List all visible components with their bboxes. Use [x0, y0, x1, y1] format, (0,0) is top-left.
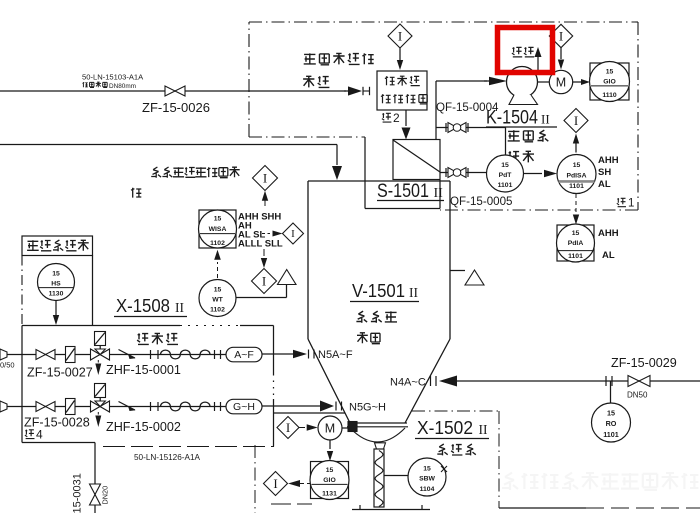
instrument 15-PdISA-1101	[557, 155, 596, 194]
svg-text:1: 1	[628, 198, 634, 210]
svg-text:15: 15	[573, 162, 581, 169]
svg-text:I: I	[286, 420, 290, 435]
svg-text:ZF-15-0028: ZF-15-0028	[24, 416, 90, 430]
svg-text:1101: 1101	[569, 183, 584, 190]
label QF-15-0004	[436, 101, 499, 114]
svg-text:M: M	[556, 76, 566, 90]
alarm labels AHH / AL	[598, 228, 619, 261]
svg-text:ALLL SLL: ALLL SLL	[238, 239, 283, 250]
oval tag G~H	[226, 399, 262, 414]
box: filter blowback system (过滤器反吹系统)	[377, 71, 427, 110]
svg-text:II: II	[541, 112, 550, 127]
flange	[151, 350, 159, 359]
svg-text:I: I	[559, 28, 563, 43]
instrument 15-SBW-1104	[408, 458, 447, 496]
diamond I (interlock, top)	[253, 166, 278, 207]
svg-text:15: 15	[52, 271, 60, 278]
svg-text:DN20: DN20	[101, 486, 110, 505]
equipment label S-1501 II	[377, 181, 444, 202]
label QF-15-0005	[450, 195, 513, 208]
svg-text:N4A~C: N4A~C	[390, 377, 426, 389]
motor M of fan	[538, 70, 573, 93]
3-way valve ZHF-15-0001 with actuator	[91, 332, 110, 376]
note 注4	[25, 428, 43, 442]
screw flight	[375, 451, 383, 507]
svg-text:15: 15	[572, 230, 580, 237]
svg-text:ZF-15-0026: ZF-15-0026	[142, 100, 210, 115]
oval tag A~F	[226, 347, 262, 362]
wire oval to nozzle N5A~F	[262, 349, 353, 361]
red highlight box (annotation)	[498, 28, 553, 73]
instrument 15-WISA-1102 (square+circle)	[199, 210, 237, 248]
air cannon line ZF-15-0027	[0, 354, 226, 356]
wire: interlock line to vessel top	[0, 145, 342, 181]
dashed arrow WT up to WISA	[214, 250, 221, 278]
QF-15-0005 branch: flanges + globe valve	[440, 168, 487, 178]
svg-text:I: I	[398, 28, 402, 43]
diamond I above PdISA	[564, 109, 588, 153]
svg-text:S-1501: S-1501	[377, 181, 429, 202]
wire: air cannon header	[22, 326, 274, 447]
svg-text:15: 15	[214, 216, 222, 223]
vessel V-1501 outline	[308, 181, 450, 423]
instrument 15-PdT-1101	[487, 155, 524, 192]
wire below G~H to funnel	[274, 412, 346, 414]
bottom header pipe	[22, 443, 95, 513]
svg-text:V-1501: V-1501	[352, 280, 405, 301]
X-1502 dash-dot boundary	[255, 411, 700, 513]
svg-text:AL: AL	[602, 250, 615, 261]
svg-text:1104: 1104	[420, 486, 435, 493]
arrow motor to GIO-1110	[573, 79, 590, 85]
arrow down to diamond I (third)	[252, 249, 277, 294]
svg-text:1101: 1101	[568, 253, 583, 260]
svg-text:II: II	[434, 186, 444, 201]
wire oval to nozzle N5G~H	[262, 401, 386, 414]
arrow PdT to PdISA	[524, 170, 558, 177]
vessel bottom bowl + flange	[347, 423, 408, 442]
svg-text:15: 15	[214, 287, 222, 294]
QF-15-0004 branch: flanges + globe valve	[436, 123, 506, 156]
svg-text:2: 2	[393, 111, 400, 125]
svg-text:1131: 1131	[322, 490, 337, 497]
wire: filter to fan suction	[436, 81, 487, 140]
svg-text:X-1502: X-1502	[417, 417, 473, 438]
svg-text:X-1508: X-1508	[116, 295, 170, 316]
diamond I (right of AL SL) + dashed arrow	[262, 223, 304, 244]
inline device	[66, 399, 76, 415]
svg-text:15: 15	[326, 467, 334, 474]
svg-text:N5G~H: N5G~H	[349, 402, 386, 414]
3-way valve ZHF-15-0002 with actuator	[91, 384, 110, 428]
alarm labels AHH SH AL	[598, 155, 619, 190]
svg-text:SH: SH	[598, 167, 611, 178]
fan K-1504 circle + base	[507, 67, 538, 105]
svg-text:AHH: AHH	[598, 228, 619, 239]
inline device	[66, 347, 76, 363]
label 空气炮	[137, 333, 178, 345]
svg-text:15: 15	[501, 162, 509, 169]
flange	[215, 350, 221, 359]
svg-text:15: 15	[423, 465, 431, 472]
wire M to vessel + mount	[342, 422, 357, 432]
vibrating feeder outlet + screw	[374, 443, 386, 507]
pipe label 50-LN-15103-A1A	[82, 73, 144, 91]
svg-text:AL: AL	[598, 179, 611, 190]
wire: main inlet line 50-LN-15103	[0, 90, 346, 92]
svg-text:II: II	[479, 422, 488, 437]
fan K-1504 arrow into suction	[484, 77, 507, 86]
wire screw to SBW	[384, 475, 408, 477]
dash-dot enclosure: coal bunker vent filter system boundary	[249, 22, 638, 210]
arrow HS down	[53, 301, 59, 326]
svg-text:15-0031: 15-0031	[72, 473, 84, 513]
flange	[215, 402, 221, 411]
flange	[151, 402, 159, 411]
svg-text:ZF-15-0029: ZF-15-0029	[611, 356, 677, 370]
svg-text:AHH: AHH	[598, 155, 619, 166]
svg-text:II: II	[409, 285, 418, 300]
instrument diamond I (top of blowback)	[388, 24, 412, 70]
svg-text:II: II	[175, 300, 184, 315]
svg-text:1101: 1101	[603, 430, 619, 439]
filter S-1501 symbol	[393, 140, 440, 180]
check valve	[119, 350, 136, 360]
label ZF-15-0029	[611, 356, 677, 370]
instrument 15-GIO-1131	[310, 461, 349, 500]
svg-text:1102: 1102	[210, 307, 225, 314]
air cannon line ZF-15-0028	[0, 406, 226, 408]
svg-text:1110: 1110	[602, 92, 617, 99]
svg-text:1102: 1102	[210, 240, 225, 247]
note 注1	[617, 198, 635, 210]
base support	[352, 505, 430, 510]
N4 feed line + arrow	[390, 376, 700, 389]
label 原料煤 储仓	[356, 311, 397, 344]
svg-text:I: I	[291, 228, 295, 240]
svg-text:DN50: DN50	[627, 391, 648, 400]
reducer cone	[0, 401, 7, 412]
diamond I above motor	[549, 24, 572, 69]
svg-text:ZHF-15-0002: ZHF-15-0002	[106, 420, 181, 434]
instrument 15-WT-1102	[199, 280, 236, 317]
svg-text:15: 15	[607, 409, 615, 418]
flexible hose	[161, 402, 210, 411]
arrow M down to GIO-1131	[327, 440, 333, 461]
equipment label X-1508 II	[114, 295, 187, 317]
dashed arrow GIO-1131 to diamond I	[264, 472, 311, 496]
level nozzle triangle on vessel left	[237, 270, 297, 298]
label 煤仓引风机	[508, 130, 549, 162]
drain valve DN20 + labels	[90, 484, 101, 505]
svg-text:ZHF-15-0001: ZHF-15-0001	[106, 363, 181, 377]
svg-text:PdT: PdT	[499, 172, 513, 179]
note 注2	[382, 111, 400, 125]
svg-text:I: I	[263, 170, 267, 185]
svg-text:K-1504: K-1504	[486, 108, 538, 129]
valve ZF-15-0026	[165, 86, 185, 96]
dashed boundary bottom	[103, 446, 274, 448]
svg-text:15: 15	[606, 68, 614, 75]
svg-text:HS: HS	[51, 280, 61, 287]
instrument 15-GIO-1110	[590, 62, 630, 102]
pipe label 50-LN-15126-A1A	[134, 453, 201, 462]
arrow + flange into blowback box	[344, 86, 370, 95]
svg-text:4: 4	[36, 428, 43, 442]
gate valve ZF-15-0027	[36, 350, 55, 360]
svg-text:WISA: WISA	[209, 226, 227, 233]
svg-text:RO: RO	[606, 419, 617, 428]
svg-text:0/50: 0/50	[0, 361, 15, 370]
label: coal bunker vent filter (煤仓排风过滤器)	[303, 53, 374, 88]
flexible hose	[161, 350, 210, 359]
svg-text:50-LN-15126-A1A: 50-LN-15126-A1A	[134, 453, 201, 462]
labels line2	[24, 416, 181, 435]
svg-text:50-LN-15103-A1A: 50-LN-15103-A1A	[82, 73, 144, 82]
svg-text:1130: 1130	[49, 291, 64, 298]
svg-text:I: I	[273, 476, 277, 491]
instrument 15-RO-1101	[592, 381, 631, 442]
alarm labels AHH SHH / AH / AL SL / ALLL SLL	[238, 212, 283, 250]
reducer cone	[0, 349, 7, 360]
equipment label K-1504 II	[486, 108, 557, 129]
label 原料煤贮运系统连锁	[131, 167, 240, 198]
level nozzle triangle on vessel right	[450, 270, 484, 285]
svg-text:PdISA: PdISA	[566, 172, 586, 179]
equipment label X-1502 II	[415, 417, 489, 439]
svg-text:I: I	[262, 273, 266, 288]
svg-text:G~H: G~H	[233, 401, 255, 413]
svg-text:ZF-15-0027: ZF-15-0027	[27, 366, 93, 380]
instrument 15-PdIA-1101	[557, 224, 595, 262]
field control cabinet 现场控制柜	[22, 236, 93, 256]
label 振动料	[437, 444, 476, 455]
svg-text:GIO: GIO	[323, 477, 335, 484]
check valve	[119, 402, 136, 412]
flanges + valve DN50	[606, 376, 650, 400]
vent label 放空 + arrow	[512, 47, 542, 72]
svg-text:A~F: A~F	[234, 349, 254, 361]
dashed signal PdISA down to PdIA	[573, 194, 579, 225]
svg-text:QF-15-0005: QF-15-0005	[450, 195, 513, 208]
instrument 15-HS-1130	[38, 264, 75, 301]
svg-text:I: I	[574, 113, 578, 128]
watermark	[502, 472, 698, 490]
wire + arrow: blowback to filter	[402, 110, 411, 140]
labels line1	[0, 361, 181, 380]
svg-text:GIO: GIO	[603, 79, 615, 86]
wire: loop around filter S-1501	[365, 137, 440, 209]
svg-text:PdIA: PdIA	[568, 240, 584, 247]
svg-text:SBW: SBW	[419, 475, 435, 482]
feeder drive: diamond I + motor M	[277, 416, 342, 440]
svg-text:DN80mm: DN80mm	[109, 83, 136, 90]
gate valve ZF-15-0028	[36, 402, 55, 412]
cabinet side wires	[22, 256, 93, 443]
equipment label V-1501 II	[350, 280, 419, 302]
label ZF-15-0026	[142, 100, 210, 115]
svg-text:1101: 1101	[498, 182, 513, 189]
svg-text:N5A~F: N5A~F	[318, 349, 353, 361]
svg-text:M: M	[325, 422, 335, 436]
svg-text:WT: WT	[212, 296, 223, 303]
